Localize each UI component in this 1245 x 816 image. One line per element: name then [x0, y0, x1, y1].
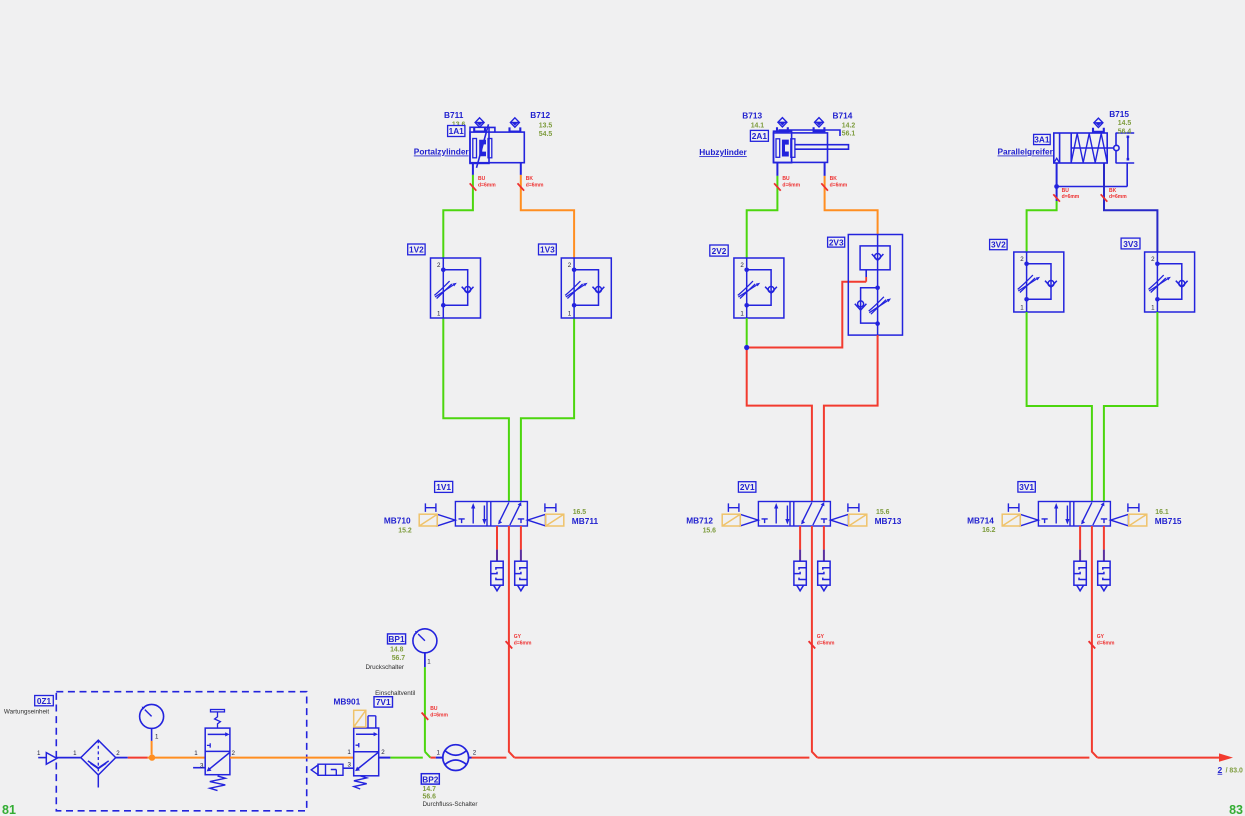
wire valve 3V1 port5 to silencer: [1079, 526, 1081, 550]
svg-text:B711: B711: [444, 110, 464, 120]
svg-text:1: 1: [427, 659, 431, 666]
wire into BP2: [430, 757, 435, 759]
svg-text:2V3: 2V3: [829, 237, 844, 247]
wire cylinder 1A1 port left stub: [472, 163, 474, 175]
wire 2V2 to junction (green): [746, 318, 748, 348]
svg-text:56.1: 56.1: [842, 131, 856, 138]
wire manual valve to MB901 (orange): [230, 757, 354, 759]
svg-text:2: 2: [740, 262, 744, 269]
flow sensor BP2: [443, 745, 469, 771]
svg-text:3V3: 3V3: [1123, 239, 1138, 249]
silencer 3V1 right: [1098, 561, 1110, 591]
svg-text:BU: BU: [782, 176, 790, 182]
service unit 0Z1 dashed frame: [56, 692, 306, 811]
wire supply valve 3V1 port1 (red): [1092, 526, 1098, 758]
wire 2V3 check box stub: [865, 270, 867, 277]
svg-text:1: 1: [37, 750, 41, 757]
svg-text:Portalzylinder: Portalzylinder: [414, 147, 470, 157]
svg-text:81: 81: [2, 803, 16, 816]
wire 1V2 to valve 1V1 port 4 (green): [443, 318, 509, 502]
svg-text:54.5: 54.5: [539, 131, 553, 138]
valve 2V3 combined check/flow unit: [848, 235, 902, 336]
label 3V1: [1018, 482, 1035, 493]
silencer 2V1 left: [794, 561, 806, 591]
svg-text:16.5: 16.5: [573, 509, 587, 516]
wire 1A1 right to 1V3 (orange): [521, 175, 574, 258]
label 2V1: [738, 482, 756, 493]
svg-text:16.2: 16.2: [982, 527, 996, 534]
svg-text:15.6: 15.6: [703, 527, 717, 534]
wire valve 2V1 port3 to silencer: [823, 526, 825, 550]
svg-text:1: 1: [437, 311, 441, 318]
wire inlet to filter: [57, 757, 81, 759]
svg-text:2A1: 2A1: [752, 131, 768, 141]
gauge 0Z1 stem: [151, 728, 153, 741]
wire MB901 out (green): [379, 757, 391, 759]
exhaust fitting port3 MB901: [343, 767, 354, 769]
svg-text:d=6mm: d=6mm: [514, 641, 532, 647]
svg-text:MB714: MB714: [967, 516, 994, 526]
wire valve 3V1 port3 to silencer: [1103, 526, 1105, 550]
svg-text:1V3: 1V3: [540, 245, 555, 255]
svg-text:MB712: MB712: [686, 516, 713, 526]
svg-text:1: 1: [1020, 305, 1024, 312]
silencer 1V1 right: [515, 561, 527, 591]
cylinder 2A1: [774, 130, 849, 163]
bus arrow: [1219, 753, 1233, 761]
svg-text:BP2: BP2: [422, 774, 439, 784]
svg-text:1: 1: [194, 750, 198, 757]
wire 2A1 right to 2V3 (orange): [825, 176, 878, 235]
sensor B714: [814, 118, 825, 132]
wire valve 1V1 port5 to silencer: [496, 526, 498, 550]
wire gripper link line: [1057, 163, 1128, 187]
svg-text:Wartungseinheit: Wartungseinheit: [4, 709, 50, 716]
svg-text:56.6: 56.6: [423, 793, 437, 800]
svg-text:1A1: 1A1: [449, 126, 465, 136]
svg-text:GY: GY: [514, 634, 522, 640]
silencer 3V1 left: [1074, 561, 1086, 591]
wire junction to valve 2V1 port4 (red): [747, 348, 812, 502]
svg-text:3V2: 3V2: [991, 240, 1006, 250]
svg-text:3: 3: [200, 763, 204, 770]
wire main pressure bus (red): [472, 757, 507, 759]
sensor B715: [1093, 118, 1104, 132]
label 3A1: [1034, 134, 1051, 144]
tube mark GY group2: [809, 641, 816, 648]
svg-text:d=6mm: d=6mm: [830, 182, 848, 188]
svg-text:3: 3: [348, 762, 352, 769]
svg-text:2: 2: [437, 262, 441, 269]
svg-text:14.1: 14.1: [751, 123, 765, 130]
svg-text:1: 1: [1151, 305, 1155, 312]
flow control valve 3V2: [1014, 252, 1064, 312]
label 2V3: [828, 237, 845, 247]
solenoid coil MB901: [354, 710, 366, 727]
node junction 2: [744, 345, 749, 350]
wire supply valve 1V1 port1 (red): [509, 526, 515, 758]
svg-text:1: 1: [437, 749, 441, 756]
svg-text:2: 2: [1151, 256, 1155, 263]
tube mark BU BP1: [422, 713, 429, 720]
wire supply valve 2V1 port1 (red): [812, 526, 818, 758]
svg-text:1V2: 1V2: [409, 245, 424, 255]
svg-text:MB713: MB713: [875, 516, 902, 526]
sensor B713: [777, 118, 788, 132]
svg-text:BK: BK: [1109, 188, 1117, 194]
label 1V2: [408, 244, 425, 255]
sensor B711: [474, 118, 485, 132]
tube mark BK 2A1: [821, 183, 828, 190]
svg-text:B713: B713: [742, 111, 762, 121]
svg-text:d=6mm: d=6mm: [817, 641, 835, 647]
svg-text:2: 2: [381, 749, 385, 756]
label 7V1: [374, 697, 393, 707]
svg-text:BP1: BP1: [388, 634, 405, 644]
tube mark BK 3A1: [1101, 194, 1108, 201]
valve 3V1 5/2: [1002, 502, 1147, 527]
svg-text:14.8: 14.8: [390, 647, 404, 654]
svg-text:56.4: 56.4: [1118, 128, 1132, 135]
svg-text:BK: BK: [526, 176, 534, 182]
valve 2V1 5/2: [722, 502, 867, 527]
wire valve 2V1 port5 to silencer: [799, 526, 801, 550]
svg-text:d=6mm: d=6mm: [1097, 641, 1115, 647]
svg-text:Parallelgreifer: Parallelgreifer: [998, 147, 1054, 157]
svg-text:d=6mm: d=6mm: [478, 182, 496, 188]
svg-text:1V1: 1V1: [436, 482, 451, 492]
label 3V3: [1121, 238, 1140, 249]
gauge 0Z1: [140, 704, 164, 728]
tube mark GY group1: [506, 641, 513, 648]
tube mark GY group3: [1089, 641, 1096, 648]
svg-text:BK: BK: [830, 176, 838, 182]
svg-text:2: 2: [473, 749, 477, 756]
svg-text:1: 1: [568, 311, 572, 318]
gripper 3A1: [1054, 133, 1134, 163]
cylinder 1A1: [470, 124, 524, 168]
tube mark BU 1A1: [470, 183, 477, 190]
port 3 stub manual valve: [193, 767, 205, 769]
valve 7V1 MB901 3/2 solenoid: [354, 716, 379, 789]
svg-text:1: 1: [73, 750, 77, 757]
svg-text:13.5: 13.5: [539, 123, 553, 130]
svg-text:14.7: 14.7: [423, 786, 437, 793]
svg-text:/ 83.0: / 83.0: [1226, 768, 1243, 775]
label BP1: [388, 634, 406, 644]
svg-text:0Z1: 0Z1: [37, 696, 52, 706]
svg-text:83: 83: [1229, 803, 1243, 816]
svg-text:2V2: 2V2: [712, 246, 727, 256]
label 1A1: [448, 126, 465, 137]
flow control valve 3V3: [1145, 252, 1195, 312]
svg-text:Hubzylinder: Hubzylinder: [699, 147, 747, 157]
svg-text:BU: BU: [478, 176, 486, 182]
wire gripper 3A1 port left stub: [1056, 163, 1058, 201]
svg-text:15.2: 15.2: [398, 527, 412, 534]
svg-text:Druckschalter: Druckschalter: [366, 664, 405, 671]
filter regulator 0Z1: [81, 740, 116, 787]
svg-text:d=6mm: d=6mm: [1062, 194, 1080, 200]
wire 3V3 to valve 3V1 port2 (green): [1104, 312, 1158, 502]
svg-text:d=6mm: d=6mm: [526, 182, 544, 188]
wire 2A1 left to 2V2 (green): [747, 176, 778, 258]
svg-text:MB711: MB711: [572, 516, 599, 526]
svg-text:7V1: 7V1: [376, 697, 391, 707]
tube mark BU 2A1: [774, 183, 781, 190]
svg-text:MB710: MB710: [384, 516, 411, 526]
label 3V2: [990, 239, 1008, 249]
svg-text:56.7: 56.7: [392, 655, 406, 662]
wire filter to junction: [116, 757, 128, 759]
svg-text:1: 1: [347, 749, 351, 756]
svg-text:Durchfluss-Schalter: Durchfluss-Schalter: [423, 801, 478, 808]
wire BP2 out stub: [469, 757, 472, 759]
svg-text:2: 2: [1218, 765, 1223, 775]
tube mark BU 3A1: [1053, 194, 1060, 201]
sensor B712: [510, 118, 521, 132]
manual valve 0Z1 3/2: [205, 710, 230, 791]
svg-text:B712: B712: [530, 110, 550, 120]
svg-text:3V1: 3V1: [1019, 482, 1034, 492]
inlet triangle: [38, 757, 46, 759]
silencer 2V1 right: [818, 561, 830, 591]
pressure switch BP1 gauge: [413, 629, 437, 653]
label 1V3: [539, 244, 557, 255]
node junction orange: [149, 754, 155, 760]
svg-text:1: 1: [740, 311, 744, 318]
node gripper junction: [1054, 184, 1059, 189]
svg-text:2V1: 2V1: [740, 482, 755, 492]
silencer 1V1 left: [491, 561, 503, 591]
svg-text:B714: B714: [833, 111, 853, 121]
svg-text:2: 2: [116, 750, 120, 757]
svg-text:BU: BU: [1062, 188, 1070, 194]
svg-text:Einschaltventil: Einschaltventil: [375, 690, 415, 697]
svg-text:B715: B715: [1109, 109, 1129, 119]
svg-text:2: 2: [232, 750, 236, 757]
svg-text:16.1: 16.1: [1155, 509, 1169, 516]
valve 1V1 5/2: [419, 502, 564, 527]
wire cylinder 2A1 port left stub: [776, 163, 778, 176]
svg-text:2: 2: [1020, 256, 1024, 263]
svg-text:14.5: 14.5: [1118, 120, 1132, 127]
wire 3A1 right to 3V3 (blue): [1104, 163, 1157, 252]
label 2V2: [710, 245, 728, 256]
wire 2V3 outlet to valve 2V1 port2 (red): [824, 335, 878, 501]
svg-text:BU: BU: [430, 706, 438, 712]
wire junction to 2V3 inlet (red bridge): [747, 282, 867, 348]
flow control valve 1V2: [431, 258, 481, 318]
wire 3A1 left to 3V2 (green): [1027, 201, 1057, 252]
wire 1A1 left to 1V2 (green): [443, 175, 473, 258]
svg-text:MB901: MB901: [334, 697, 361, 707]
svg-text:d=6mm: d=6mm: [1109, 194, 1127, 200]
svg-text:3A1: 3A1: [1034, 135, 1050, 145]
tube mark BK 1A1: [518, 183, 525, 190]
label BP2: [421, 774, 439, 784]
svg-text:15.6: 15.6: [876, 509, 890, 516]
svg-text:MB715: MB715: [1155, 516, 1182, 526]
wire 3V2 to valve 3V1 port4 (green): [1027, 312, 1092, 502]
svg-text:2: 2: [568, 262, 572, 269]
svg-text:1: 1: [155, 734, 159, 741]
svg-text:d=6mm: d=6mm: [430, 713, 448, 719]
flow control valve 1V3: [561, 258, 611, 318]
wire cylinder 2A1 port right stub: [824, 163, 826, 176]
svg-text:d=6mm: d=6mm: [782, 182, 800, 188]
svg-text:GY: GY: [1097, 634, 1105, 640]
svg-text:GY: GY: [817, 634, 825, 640]
label 0Z1: [35, 696, 54, 706]
wire valve 1V1 port3 to silencer: [520, 526, 522, 550]
wire riser to BP1 (green): [424, 667, 426, 752]
svg-text:14.2: 14.2: [842, 123, 856, 130]
label 2A1: [750, 130, 768, 141]
label 1V1: [435, 481, 453, 492]
wire cylinder 1A1 port right stub: [520, 163, 522, 175]
flow control valve 2V2: [734, 258, 784, 318]
wire 1V3 to valve 1V1 port 2 (green): [521, 318, 574, 502]
